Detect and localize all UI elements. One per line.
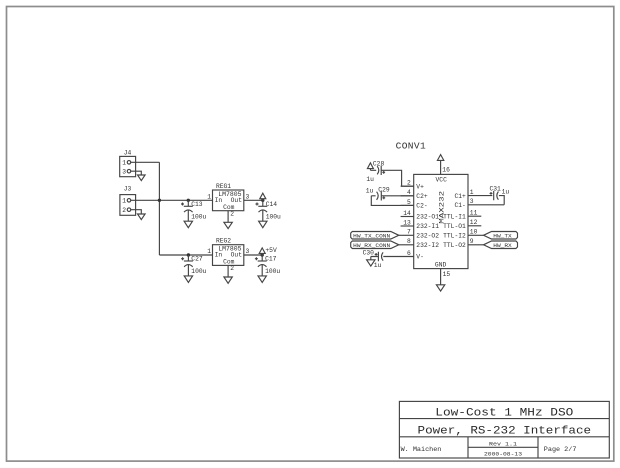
pin 11 TTL-I1 xyxy=(443,210,481,221)
svg-text:J4: J4 xyxy=(124,149,132,156)
junction node (C27) xyxy=(187,253,190,256)
pin 6 V- xyxy=(407,250,424,261)
svg-text:3: 3 xyxy=(246,248,250,255)
power arrow (REG1 out) xyxy=(260,193,266,200)
svg-text:1u: 1u xyxy=(502,189,510,196)
ground (C13) xyxy=(184,221,192,228)
junction node (C14) xyxy=(261,199,264,202)
pin 13 232-I1 xyxy=(401,219,440,230)
svg-text:100u: 100u xyxy=(265,268,280,275)
capacitor C28 1u xyxy=(366,160,413,186)
svg-text:C28: C28 xyxy=(373,160,385,167)
capacitor C17 100u xyxy=(255,255,281,276)
svg-text:REG2: REG2 xyxy=(216,238,231,245)
capacitor C30 1u xyxy=(363,250,414,269)
regulator REG2 LM7805 xyxy=(207,238,249,273)
svg-text:1u: 1u xyxy=(366,187,374,194)
svg-text:J3: J3 xyxy=(124,186,132,193)
wire vertical +9V net xyxy=(158,162,160,255)
svg-text:3: 3 xyxy=(122,168,126,175)
svg-text:100u: 100u xyxy=(191,268,206,275)
ground (C14) xyxy=(259,221,267,228)
wire J3 pin1 to REG1 input xyxy=(131,199,213,201)
capacitor C29 1u xyxy=(366,187,414,206)
title block xyxy=(399,401,609,458)
pin 1 C1+ xyxy=(454,189,492,200)
wire to REG2 input xyxy=(159,254,212,256)
svg-text:HW_TX: HW_TX xyxy=(493,233,512,240)
pin 8 232-I2 xyxy=(399,238,439,249)
pin 14 232-O1 xyxy=(401,210,440,221)
svg-text:100u: 100u xyxy=(191,213,206,220)
svg-text:In: In xyxy=(215,252,223,259)
ground (pin15) xyxy=(436,285,444,291)
svg-text:C27: C27 xyxy=(191,256,203,263)
svg-text:TTL-I2: TTL-I2 xyxy=(443,233,466,240)
svg-text:C29: C29 xyxy=(378,187,390,194)
power arrow +5V xyxy=(259,248,265,255)
svg-text:10: 10 xyxy=(470,229,478,236)
svg-text:100u: 100u xyxy=(266,213,281,220)
wire REG2 pin2 to ground xyxy=(227,265,229,277)
ground (REG2) xyxy=(224,277,232,283)
svg-text:1: 1 xyxy=(470,189,474,196)
svg-text:HW_RX_CONN: HW_RX_CONN xyxy=(353,242,391,249)
pin 12 TTL-O1 xyxy=(443,219,481,230)
svg-text:Page 2/7: Page 2/7 xyxy=(544,446,577,453)
svg-text:REG1: REG1 xyxy=(216,183,231,190)
svg-text:232-O1: 232-O1 xyxy=(416,214,439,221)
pin 5 C2- xyxy=(401,199,428,210)
svg-text:14: 14 xyxy=(403,210,411,217)
capacitor C14 100u xyxy=(256,200,282,221)
svg-text:Low-Cost 1 MHz DSO: Low-Cost 1 MHz DSO xyxy=(435,407,573,419)
svg-text:VCC: VCC xyxy=(436,176,448,183)
svg-text:GND: GND xyxy=(435,261,447,268)
svg-text:3: 3 xyxy=(470,198,474,205)
ground (REG1) xyxy=(224,222,232,228)
svg-text:16: 16 xyxy=(442,167,450,174)
wire J4 pin3 to ground xyxy=(131,171,142,175)
svg-text:W. Maichen: W. Maichen xyxy=(401,446,442,453)
svg-text:Rev 1.1: Rev 1.1 xyxy=(489,441,518,448)
svg-text:6: 6 xyxy=(407,250,411,257)
ground (J3 pin2) xyxy=(138,214,146,220)
power arrow (C28) xyxy=(367,163,373,170)
wire REG1 out xyxy=(244,199,263,201)
pin 9 TTL-O2 xyxy=(443,238,483,249)
svg-text:2000-08-13: 2000-08-13 xyxy=(484,450,523,457)
svg-text:C2+: C2+ xyxy=(416,193,428,200)
svg-text:In: In xyxy=(215,197,223,204)
svg-text:1: 1 xyxy=(122,198,126,205)
svg-text:Power, RS-232 Interface: Power, RS-232 Interface xyxy=(418,426,592,438)
svg-text:HW_RX: HW_RX xyxy=(493,242,512,249)
svg-text:C31: C31 xyxy=(490,186,502,193)
svg-text:C13: C13 xyxy=(191,201,203,208)
svg-text:TTL-O1: TTL-O1 xyxy=(443,223,466,230)
pin 4 C2+ xyxy=(401,189,428,200)
regulator REG1 LM7805 xyxy=(207,183,249,218)
wire REG2 out xyxy=(244,254,262,256)
svg-text:3: 3 xyxy=(246,194,250,201)
svg-text:TTL-I1: TTL-I1 xyxy=(443,213,466,220)
svg-text:2: 2 xyxy=(122,207,126,214)
svg-text:11: 11 xyxy=(470,210,478,217)
pin 2 V+ xyxy=(401,180,424,191)
svg-text:232-O2: 232-O2 xyxy=(416,233,439,240)
svg-text:1: 1 xyxy=(122,160,126,167)
wire J4 pin1 right xyxy=(131,161,160,163)
svg-text:C1+: C1+ xyxy=(454,193,466,200)
svg-text:2: 2 xyxy=(407,180,411,187)
svg-text:1u: 1u xyxy=(366,176,374,183)
svg-text:1: 1 xyxy=(207,248,211,255)
junction node (C13) xyxy=(187,199,190,202)
svg-text:TTL-O2: TTL-O2 xyxy=(443,242,466,249)
ground (C27) xyxy=(184,276,192,283)
capacitor C27 100u xyxy=(181,255,207,276)
ground (C30) xyxy=(367,260,375,266)
pin 15 GND xyxy=(441,269,451,285)
junction node (J4/J3 rail) xyxy=(158,199,161,202)
svg-text:C17: C17 xyxy=(265,256,277,263)
svg-text:1: 1 xyxy=(207,194,211,201)
svg-text:12: 12 xyxy=(470,219,478,226)
svg-text:15: 15 xyxy=(443,271,451,278)
net label HW_TX_CONN xyxy=(351,232,399,240)
pin 10 TTL-I2 xyxy=(443,229,483,240)
ground (J4 pin3) xyxy=(138,175,146,181)
svg-text:13: 13 xyxy=(403,219,411,226)
wire REG1 pin2 to ground xyxy=(227,211,229,223)
svg-text:V-: V- xyxy=(416,254,424,261)
svg-text:9: 9 xyxy=(470,238,474,245)
net label HW_RX_CONN xyxy=(351,241,399,249)
svg-text:C30: C30 xyxy=(363,250,375,257)
svg-text:HW_TX_CONN: HW_TX_CONN xyxy=(353,233,391,240)
svg-text:2: 2 xyxy=(230,210,234,217)
svg-text:2: 2 xyxy=(230,265,234,272)
svg-text:7: 7 xyxy=(407,229,411,236)
svg-text:232-I1: 232-I1 xyxy=(416,223,439,230)
svg-text:+5V: +5V xyxy=(265,247,277,254)
svg-text:232-I2: 232-I2 xyxy=(416,242,439,249)
svg-text:C1-: C1- xyxy=(454,202,465,209)
junction node (C17) xyxy=(261,253,264,256)
svg-text:CONV1: CONV1 xyxy=(396,141,427,152)
svg-text:4: 4 xyxy=(407,189,411,196)
svg-text:V+: V+ xyxy=(416,183,424,190)
capacitor C13 100u xyxy=(181,200,207,221)
net label HW_RX xyxy=(484,241,518,249)
svg-text:8: 8 xyxy=(407,238,411,245)
net label HW_TX xyxy=(484,232,518,240)
svg-text:C2-: C2- xyxy=(416,203,427,210)
wire J3 pin2 to ground xyxy=(131,210,142,214)
pin 16 VCC xyxy=(441,160,450,174)
svg-text:1u: 1u xyxy=(374,262,382,269)
pin 7 232-O2 xyxy=(399,229,439,240)
pin 3 C1- xyxy=(454,198,504,209)
connector J4 xyxy=(120,149,136,176)
IC CONV1 MAX232 body xyxy=(414,174,468,268)
svg-text:C14: C14 xyxy=(266,201,278,208)
capacitor C31 1u xyxy=(490,186,510,205)
connector J3 xyxy=(120,186,136,216)
ground (C17) xyxy=(258,276,266,283)
svg-text:5: 5 xyxy=(407,199,411,206)
power arrow (pin16 VCC) xyxy=(437,155,443,161)
